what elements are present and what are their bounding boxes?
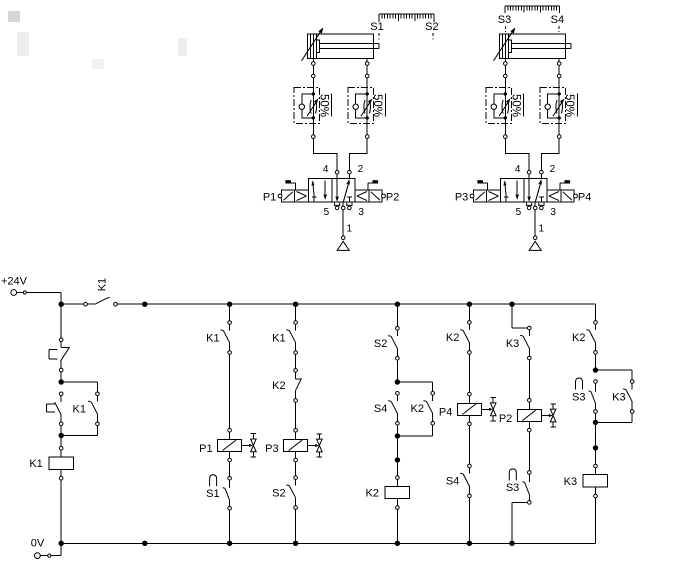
svg-text:K2: K2: [446, 332, 459, 344]
svg-text:S3: S3: [498, 14, 511, 26]
svg-text:2: 2: [550, 164, 556, 175]
svg-text:K2: K2: [366, 488, 379, 500]
svg-text:P2: P2: [499, 413, 512, 425]
svg-text:P3: P3: [455, 191, 468, 203]
svg-text:S3: S3: [506, 482, 519, 494]
svg-text:3: 3: [550, 207, 556, 218]
svg-text:S4: S4: [551, 14, 564, 26]
svg-text:S2: S2: [425, 21, 438, 33]
svg-text:S4: S4: [374, 403, 387, 415]
svg-text:K1: K1: [272, 332, 285, 344]
svg-text:K3: K3: [612, 391, 625, 403]
svg-text:K3: K3: [506, 338, 519, 350]
svg-text:1: 1: [347, 224, 353, 235]
svg-text:P3: P3: [265, 443, 278, 455]
svg-text:5: 5: [324, 207, 330, 218]
svg-text:4: 4: [515, 164, 521, 175]
svg-text:P2: P2: [386, 191, 399, 203]
svg-text:P1: P1: [199, 443, 212, 455]
svg-text:P4: P4: [439, 407, 452, 419]
svg-text:+24V: +24V: [1, 276, 28, 288]
svg-text:50%: 50%: [563, 94, 575, 117]
svg-text:4: 4: [323, 164, 329, 175]
svg-text:S1: S1: [206, 488, 219, 500]
svg-text:S1: S1: [370, 21, 383, 33]
svg-text:P4: P4: [578, 191, 591, 203]
svg-text:50%: 50%: [371, 94, 383, 117]
svg-text:0V: 0V: [31, 538, 45, 550]
svg-text:3: 3: [358, 207, 364, 218]
svg-text:P1: P1: [263, 191, 276, 203]
svg-text:K2: K2: [572, 332, 585, 344]
svg-text:50%: 50%: [509, 94, 521, 117]
svg-text:S3: S3: [572, 391, 585, 403]
svg-text:1: 1: [539, 224, 545, 235]
svg-text:S4: S4: [446, 476, 459, 488]
svg-text:K1: K1: [73, 403, 86, 415]
svg-text:K1: K1: [206, 332, 219, 344]
svg-text:K3: K3: [564, 476, 577, 488]
svg-text:K2: K2: [411, 403, 424, 415]
svg-text:K1: K1: [29, 458, 42, 470]
svg-text:S2: S2: [374, 338, 387, 350]
svg-text:K2: K2: [272, 380, 285, 392]
svg-text:5: 5: [516, 207, 522, 218]
svg-text:50%: 50%: [317, 94, 329, 117]
svg-text:2: 2: [358, 164, 364, 175]
svg-text:S2: S2: [272, 487, 285, 499]
svg-text:K1: K1: [96, 278, 108, 291]
